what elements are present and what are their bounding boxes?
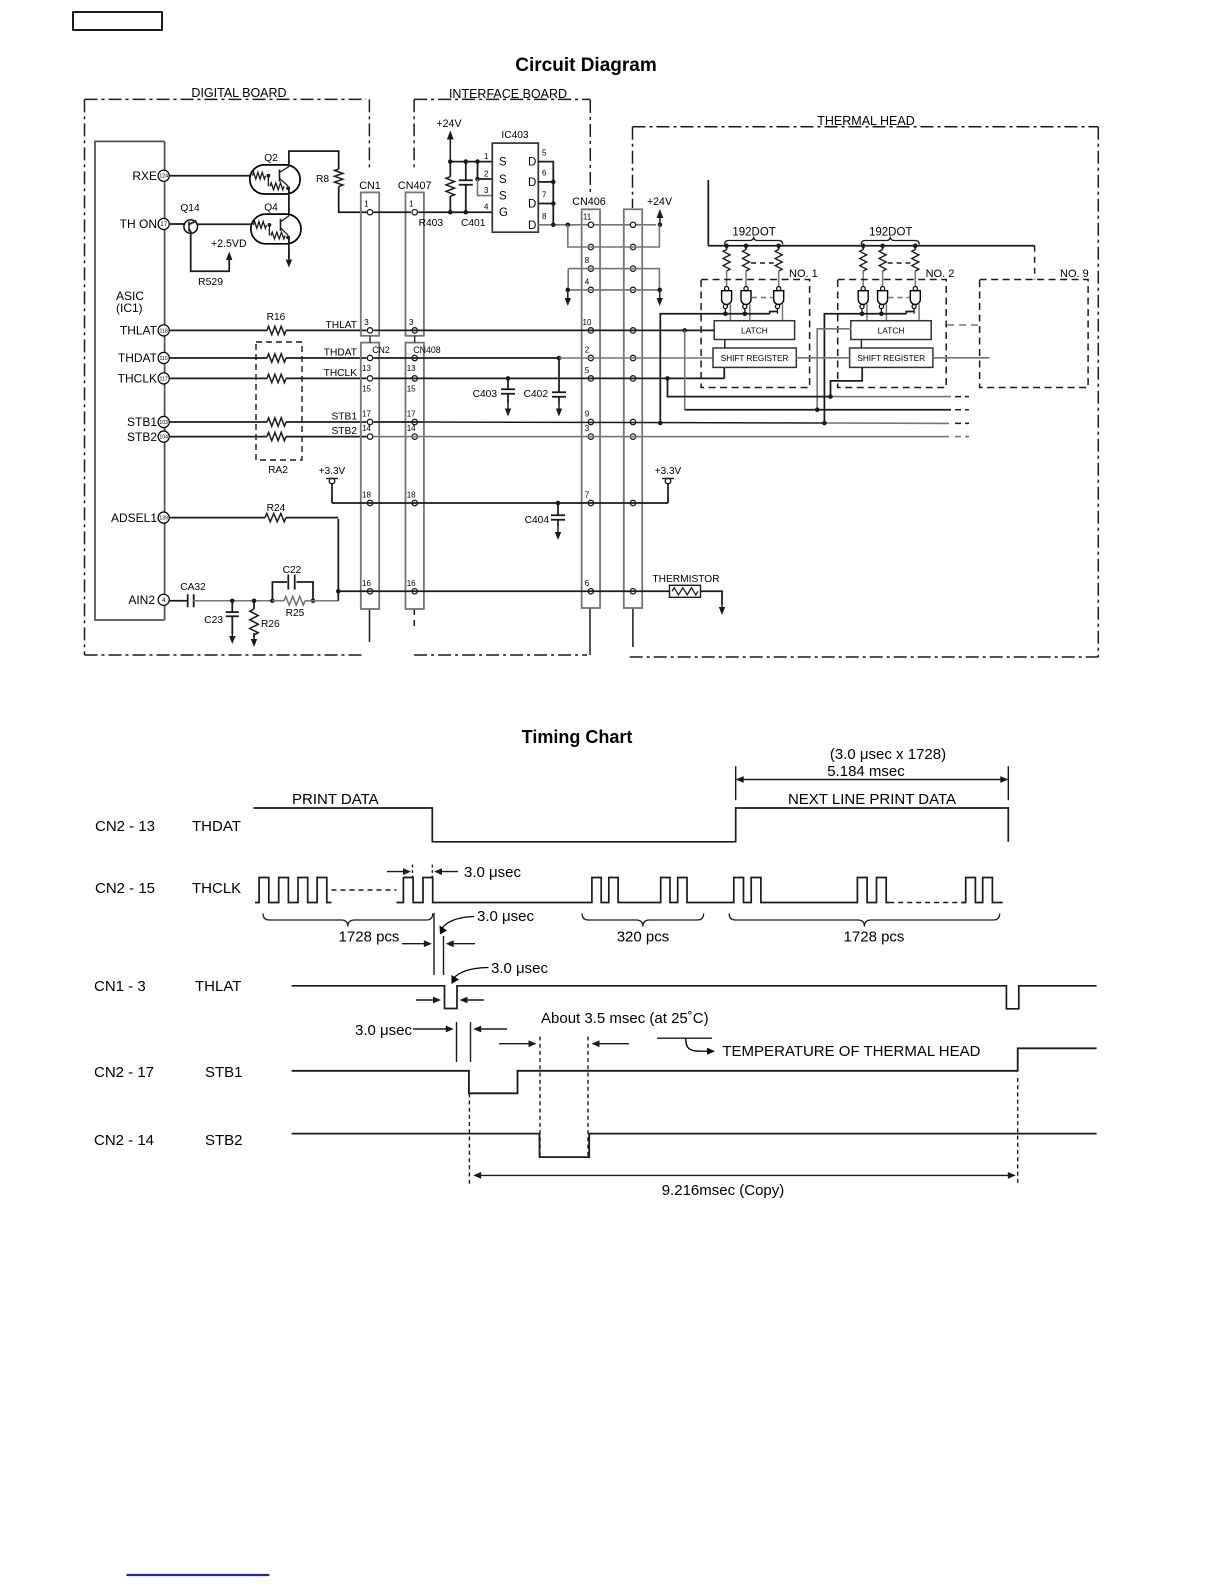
svg-text:STB2: STB2 <box>205 1132 243 1149</box>
svg-text:3: 3 <box>364 318 369 327</box>
connector CN2 <box>361 343 379 609</box>
svg-text:Q4: Q4 <box>264 203 278 214</box>
dashed continuation between heat resistors (block 2) <box>888 262 911 264</box>
heat resistor 1 of block 1 <box>724 244 729 249</box>
pin of thermal head connector <box>630 500 635 505</box>
svg-text:4: 4 <box>162 597 166 604</box>
heat resistor 2 of block 2 <box>880 244 885 249</box>
svg-text:NEXT LINE PRINT DATA: NEXT LINE PRINT DATA <box>788 791 956 808</box>
wire THCLK elbow into shift register 1 <box>723 368 725 378</box>
measure arrow 5.184 msec <box>735 766 737 800</box>
wire Q4 emitter to ground <box>288 237 290 258</box>
svg-text:16: 16 <box>407 579 416 588</box>
svg-text:CN2: CN2 <box>372 345 390 355</box>
pin of thermal head connector <box>630 434 635 439</box>
pin 15 of CN407/CN408 <box>412 376 417 381</box>
wire THCLK row <box>374 377 509 379</box>
heat resistor 2 of block 1 <box>744 244 749 249</box>
svg-text:C402: C402 <box>524 389 549 400</box>
svg-text:D: D <box>528 220 536 232</box>
svg-text:320 pcs: 320 pcs <box>617 929 670 946</box>
svg-text:AIN2: AIN2 <box>128 593 155 607</box>
pin 16 of CN407/CN408 <box>412 589 417 594</box>
brace 192DOT (block 2) <box>861 237 919 245</box>
waveform STB1 <box>292 1048 1097 1093</box>
svg-text:2: 2 <box>585 346 590 355</box>
svg-text:6: 6 <box>585 579 590 588</box>
wire ground row pin8 <box>568 269 659 290</box>
svg-text:18: 18 <box>407 491 416 500</box>
wire AIN2 pin16 row <box>338 590 669 592</box>
svg-text:15: 15 <box>407 384 416 393</box>
pin of thermal head connector <box>630 419 635 424</box>
svg-text:103: 103 <box>159 420 168 426</box>
pin 18 of CN1/CN2 <box>367 500 372 505</box>
svg-text:18: 18 <box>362 491 371 500</box>
svg-text:THDAT: THDAT <box>324 348 357 359</box>
svg-text:7: 7 <box>542 191 547 200</box>
dashed THCLK idle segment <box>332 889 397 891</box>
svg-text:G: G <box>499 207 508 219</box>
svg-text:STB1: STB1 <box>332 412 358 423</box>
gate 1 of block 2 <box>858 287 868 321</box>
svg-text:5: 5 <box>585 366 590 375</box>
wire THLAT row to thermal head <box>374 329 685 331</box>
pin 4 of CN406 <box>588 287 593 292</box>
svg-text:+24V: +24V <box>647 196 673 208</box>
svg-text:+24V: +24V <box>436 118 462 130</box>
svg-text:C401: C401 <box>461 218 486 229</box>
transistor Q4 (photocoupler) <box>251 203 301 244</box>
wire R8 to CN1 pin 1 <box>339 187 367 213</box>
svg-text:STB1: STB1 <box>127 415 157 429</box>
gate 1 of block 1 <box>722 287 732 321</box>
wire strobe row block 2 <box>824 312 914 424</box>
wire RXE to Q2 <box>169 175 250 177</box>
wire +24V stub into head <box>707 180 709 246</box>
pin of thermal head connector <box>630 376 635 381</box>
svg-text:17: 17 <box>407 410 416 419</box>
pin of thermal head connector <box>630 222 635 227</box>
svg-text:CN406: CN406 <box>572 196 606 208</box>
svg-text:9.216msec (Copy): 9.216msec (Copy) <box>662 1182 785 1199</box>
brace 192DOT (block 1) <box>725 237 783 245</box>
pin 3 of CN1/CN2 <box>367 328 372 333</box>
svg-text:LATCH: LATCH <box>878 326 905 336</box>
pin 17 of CN407/CN408 <box>412 419 417 424</box>
svg-text:+2.5VD: +2.5VD <box>211 238 247 250</box>
gate 2 of block 1 <box>741 287 751 321</box>
pin 14 of CN1/CN2 <box>367 434 372 439</box>
svg-text:C404: C404 <box>525 515 550 526</box>
dashed marker copy end <box>1017 1078 1019 1184</box>
shift register of block 2 <box>850 348 933 367</box>
resistor in line STB1 <box>267 418 286 426</box>
wire rail continuation (dashed) <box>1034 246 1036 280</box>
pin 3 of CN406 <box>588 434 593 439</box>
pin 10 of CN406 <box>588 328 593 333</box>
pin 13 of CN407/CN408 <box>412 355 417 360</box>
svg-text:C23: C23 <box>204 615 223 626</box>
svg-text:TEMPERATURE OF THERMAL HEAD: TEMPERATURE OF THERMAL HEAD <box>722 1043 980 1060</box>
annotation 3.0 usec (THCLK pulse width) <box>412 865 414 878</box>
waveform STB2 <box>292 1134 1097 1158</box>
svg-text:S: S <box>499 191 507 203</box>
wire +24V rail of heat resistors <box>708 245 1034 247</box>
svg-text:8: 8 <box>585 256 590 265</box>
thermistor <box>652 574 719 597</box>
svg-text:THCLK: THCLK <box>192 880 241 897</box>
svg-text:3.0 μsec: 3.0 μsec <box>477 908 535 925</box>
svg-text:INTERFACE BOARD: INTERFACE BOARD <box>449 87 567 101</box>
svg-text:SHIFT REGISTER: SHIFT REGISTER <box>721 354 789 363</box>
svg-text:6: 6 <box>542 169 547 178</box>
dashed row continuations toward NO.9 <box>955 396 969 398</box>
svg-text:14: 14 <box>362 424 371 433</box>
svg-text:4: 4 <box>484 203 489 212</box>
wire STB1 row <box>169 421 267 423</box>
svg-text:1728 pcs: 1728 pcs <box>844 929 905 946</box>
pin 18 of CN407/CN408 <box>412 500 417 505</box>
wire shift register chain 2-9 <box>933 357 990 359</box>
dashed THCLK baseline segment <box>889 902 961 904</box>
svg-text:LATCH: LATCH <box>741 326 768 336</box>
driver block NO. 9 dashed box <box>980 280 1089 388</box>
svg-text:R403: R403 <box>419 218 444 229</box>
heat resistor 3 of block 2 <box>913 244 918 249</box>
dashed marks between gates (block 1) <box>752 297 773 299</box>
waveform THDAT <box>254 808 1009 842</box>
resistor network RA2 (dashed box) <box>256 342 302 460</box>
gate 3 of block 1 <box>774 287 784 321</box>
svg-text:104: 104 <box>159 434 168 440</box>
brace 1728 pcs (right) <box>729 914 1000 927</box>
IC U403 (IC403 FET array) <box>484 130 547 232</box>
wire THLAT branch to latch 2 <box>684 330 686 409</box>
svg-text:ADSEL1: ADSEL1 <box>111 511 157 525</box>
svg-text:R16: R16 <box>267 312 286 323</box>
wire THCLK into shift register 2 <box>831 367 863 396</box>
wire STB2 row <box>374 436 950 438</box>
svg-text:118: 118 <box>160 328 168 334</box>
dashed latch chain 2-9 <box>947 324 980 326</box>
resistor in line THCLK <box>267 374 286 382</box>
wire THLAT row <box>169 329 267 331</box>
svg-text:CN2 - 17: CN2 - 17 <box>94 1064 154 1081</box>
gate 2 of block 2 <box>878 287 888 321</box>
wire pin3 branch <box>478 179 493 196</box>
pin 9 of CN406 <box>588 419 593 424</box>
dashed markers STB2 pulse <box>539 1037 541 1158</box>
svg-text:DIGITAL BOARD: DIGITAL BOARD <box>191 86 286 100</box>
gate 3 of block 2 <box>910 287 920 321</box>
brace 320 pcs <box>582 914 704 927</box>
svg-text:14: 14 <box>407 424 416 433</box>
wire shift register chain 1-2 <box>796 357 849 359</box>
svg-text:+3.3V: +3.3V <box>319 466 346 477</box>
wire +24V second row <box>568 225 660 247</box>
wire Q14 to Q4 <box>198 223 251 225</box>
svg-text:+3.3V: +3.3V <box>655 466 682 477</box>
svg-text:139: 139 <box>159 515 168 521</box>
pin 3 of CN407/CN408 <box>412 328 417 333</box>
transistor Q2 (photocoupler) <box>250 153 300 194</box>
thermal head border <box>630 127 1099 657</box>
waveform THCLK <box>255 878 332 903</box>
wire TH ON to Q14 <box>169 223 184 225</box>
pin 6 of CN406 <box>588 589 593 594</box>
svg-text:3.0 μsec: 3.0 μsec <box>491 960 549 977</box>
svg-text:7: 7 <box>585 491 590 500</box>
dashed continuation between heat resistors (block 1) <box>751 262 774 264</box>
pin nc of CN406 <box>588 244 593 249</box>
svg-text:117: 117 <box>160 376 168 382</box>
svg-text:SHIFT REGISTER: SHIFT REGISTER <box>857 354 925 363</box>
svg-text:124: 124 <box>159 174 168 180</box>
annotation TEMPERATURE OF THERMAL HEAD <box>657 1037 712 1039</box>
svg-text:THDAT: THDAT <box>192 818 241 835</box>
pin 16 of CN1/CN2 <box>367 589 372 594</box>
svg-text:R26: R26 <box>261 619 280 630</box>
svg-text:STB2: STB2 <box>332 426 358 437</box>
wire THCLK branch row <box>668 378 831 396</box>
wire strobe row block 1 <box>660 312 777 424</box>
svg-text:3: 3 <box>585 424 590 433</box>
svg-text:D: D <box>528 177 536 189</box>
latch of block 1 <box>714 321 794 340</box>
svg-text:S: S <box>499 157 507 169</box>
svg-text:1: 1 <box>409 200 414 209</box>
pin of thermal head connector <box>630 589 635 594</box>
svg-text:R8: R8 <box>316 174 329 185</box>
svg-text:3: 3 <box>484 186 489 195</box>
svg-text:CN2 - 14: CN2 - 14 <box>94 1132 154 1149</box>
svg-text:Circuit Diagram: Circuit Diagram <box>515 55 656 76</box>
page corner label box <box>73 12 162 30</box>
thermal head connector column <box>624 209 642 608</box>
svg-text:R25: R25 <box>286 608 305 619</box>
svg-text:11: 11 <box>583 212 592 221</box>
wire latch to shift register (block 1) <box>724 340 726 349</box>
waveform THLAT <box>292 986 1097 1009</box>
connector CN1 <box>361 192 379 335</box>
svg-text:STB2: STB2 <box>127 430 157 444</box>
svg-text:5.184 msec: 5.184 msec <box>827 763 905 780</box>
footer link line <box>127 1574 270 1576</box>
svg-text:Timing Chart: Timing Chart <box>522 727 633 747</box>
svg-text:Q14: Q14 <box>180 203 200 214</box>
svg-text:S: S <box>499 174 507 186</box>
svg-text:CN2 - 13: CN2 - 13 <box>95 818 155 835</box>
svg-text:3: 3 <box>409 318 414 327</box>
svg-text:CN408: CN408 <box>413 345 440 355</box>
heat resistor 3 of block 1 <box>776 244 781 249</box>
svg-text:NO. 1: NO. 1 <box>789 268 818 280</box>
pin 2 of CN406 <box>588 355 593 360</box>
pin 14 of CN407/CN408 <box>412 434 417 439</box>
svg-text:D: D <box>528 157 536 169</box>
capacitor C22 / resistor R25 parallel <box>270 565 315 619</box>
svg-text:9: 9 <box>585 410 590 419</box>
svg-text:STB1: STB1 <box>205 1064 243 1081</box>
wire THLAT into latch 1 <box>685 329 715 331</box>
svg-text:CN407: CN407 <box>398 180 432 192</box>
digital board border <box>85 99 370 655</box>
pin of thermal head connector <box>630 287 635 292</box>
brace 1728 pcs (left) <box>263 914 433 927</box>
pin 8 of CN406 <box>588 266 593 271</box>
wire Q2 collector to R8 <box>289 151 339 169</box>
wire IC403 drain bus <box>538 162 553 225</box>
wire AIN2 net <box>232 600 272 602</box>
resistor in line STB2 <box>267 432 286 440</box>
svg-text:IC403: IC403 <box>501 130 529 141</box>
svg-text:1728 pcs: 1728 pcs <box>339 929 400 946</box>
pin of thermal head connector <box>630 244 635 249</box>
svg-text:THLAT: THLAT <box>195 978 241 995</box>
svg-text:THLAT: THLAT <box>325 320 357 331</box>
heat resistor 1 of block 2 <box>861 244 866 249</box>
svg-text:(3.0 μsec x 1728): (3.0 μsec x 1728) <box>830 746 946 763</box>
pin 17 of CN1/CN2 <box>367 419 372 424</box>
svg-text:RA2: RA2 <box>268 465 288 476</box>
svg-text:RXE: RXE <box>132 169 157 183</box>
svg-text:THERMAL HEAD: THERMAL HEAD <box>817 114 914 128</box>
resistor in line THLAT <box>267 326 286 334</box>
svg-text:TH ON: TH ON <box>120 217 157 231</box>
svg-text:10: 10 <box>583 318 592 327</box>
dashed marker STB1 fall <box>468 1093 470 1185</box>
svg-text:4: 4 <box>585 277 590 286</box>
pin 15 of CN1/CN2 <box>367 376 372 381</box>
pin 1 of CN407/CN408 <box>412 210 417 215</box>
wire R25 to pin16 column <box>313 600 338 602</box>
wire thermistor to ground <box>701 591 723 604</box>
ground arrow below Q4 <box>288 254 290 261</box>
resistor in line THDAT <box>267 354 286 362</box>
wire ADSEL1 through R24 <box>169 517 265 519</box>
pin 5 of CN406 <box>588 376 593 381</box>
connector CN406 <box>582 209 600 608</box>
wire STB2 row <box>169 436 267 438</box>
svg-text:NO. 2: NO. 2 <box>926 268 955 280</box>
interface board border <box>414 99 590 655</box>
svg-text:2: 2 <box>484 170 489 179</box>
svg-text:16: 16 <box>362 579 371 588</box>
shift register of block 1 <box>713 348 796 367</box>
svg-text:CN1: CN1 <box>359 180 381 192</box>
svg-text:PRINT DATA: PRINT DATA <box>292 791 379 808</box>
wire THDAT row <box>169 357 267 359</box>
svg-text:THLAT: THLAT <box>120 324 158 338</box>
wire latch to shift register (block 2) <box>860 340 862 349</box>
connector CN407 <box>406 192 424 335</box>
pin 11 of CN406 <box>588 222 593 227</box>
svg-text:NO. 9: NO. 9 <box>1060 268 1089 280</box>
wire IC403 pin8 to CN406 <box>538 224 656 226</box>
driver block NO. 1 dashed box <box>701 280 810 388</box>
svg-text:THDAT: THDAT <box>118 351 158 365</box>
svg-text:THERMISTOR: THERMISTOR <box>652 574 719 585</box>
wire THCLK row <box>169 377 267 379</box>
svg-text:C403: C403 <box>473 389 498 400</box>
pin of thermal head connector <box>630 328 635 333</box>
svg-text:116: 116 <box>160 356 168 362</box>
svg-text:3.0 μsec: 3.0 μsec <box>355 1022 413 1039</box>
svg-text:1: 1 <box>484 152 489 161</box>
wire +3.3V row <box>332 502 668 504</box>
pin 7 of CN406 <box>588 500 593 505</box>
svg-text:3.0 μsec: 3.0 μsec <box>464 864 522 881</box>
annotation 3.0 usec (latch delay) <box>433 913 435 975</box>
svg-text:CA32: CA32 <box>180 582 206 593</box>
pin 13 of CN1/CN2 <box>367 355 372 360</box>
transistor Q14 <box>180 203 200 233</box>
ground arrow right <box>659 290 661 299</box>
driver block NO. 2 dashed box <box>838 280 947 388</box>
svg-text:13: 13 <box>407 364 416 373</box>
wire THDAT row to shift register <box>374 357 560 359</box>
wire main 24V rail row <box>374 211 412 213</box>
annotation 3.0 usec (THLAT pulse) <box>454 968 489 979</box>
svg-text:13: 13 <box>362 364 371 373</box>
wire +24V node to IC403 pin1 <box>450 161 492 163</box>
svg-text:CN2 - 15: CN2 - 15 <box>95 880 155 897</box>
svg-text:CN1 - 3: CN1 - 3 <box>94 978 146 995</box>
svg-text:8: 8 <box>542 212 547 221</box>
latch of block 2 <box>851 321 931 340</box>
wire Q2 emitter to Q4 <box>288 188 290 215</box>
svg-text:17: 17 <box>160 221 167 228</box>
wire STB1 row <box>374 421 423 423</box>
ground arrow left <box>567 290 569 299</box>
svg-text:Q2: Q2 <box>264 153 278 164</box>
svg-text:About 3.5 msec (at 25˚C): About 3.5 msec (at 25˚C) <box>541 1010 709 1027</box>
ASIC (IC1) box <box>95 141 165 620</box>
svg-text:15: 15 <box>362 384 371 393</box>
wire ground row pin4 <box>568 289 660 291</box>
svg-text:17: 17 <box>362 410 371 419</box>
svg-text:(IC1): (IC1) <box>116 301 143 315</box>
pin of thermal head connector <box>630 266 635 271</box>
connector CN408 <box>406 343 424 609</box>
wire pin2 branch <box>478 162 493 179</box>
pin of thermal head connector <box>630 355 635 360</box>
svg-text:5: 5 <box>542 149 547 158</box>
pin 1 of CN1/CN2 <box>367 210 372 215</box>
measure arrow 9.216 msec <box>745 1174 1009 1176</box>
svg-text:THCLK: THCLK <box>118 372 157 386</box>
svg-text:R24: R24 <box>267 503 286 514</box>
svg-text:R529: R529 <box>198 276 223 288</box>
svg-text:THCLK: THCLK <box>324 368 358 379</box>
svg-text:C22: C22 <box>283 565 302 576</box>
svg-text:D: D <box>528 199 536 211</box>
wire Q14 emitter to +2.5VD (R529) <box>191 233 230 271</box>
dashed marks between gates (block 2) <box>889 297 910 299</box>
svg-text:1: 1 <box>364 200 369 209</box>
